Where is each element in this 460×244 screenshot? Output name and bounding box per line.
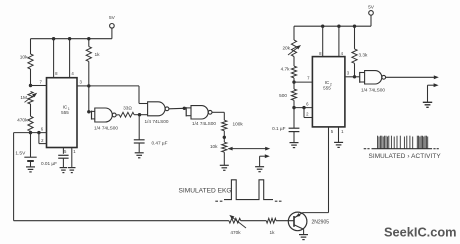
resistor R4 1k — [86, 39, 100, 86]
battery B1 1.5V — [15, 133, 36, 167]
svg-text:10k: 10k — [210, 144, 218, 149]
pin 7 label — [40, 79, 43, 84]
ground below C2 — [135, 153, 144, 158]
wire IC1 pin5 stub — [62, 148, 64, 154]
svg-text:7: 7 — [307, 76, 310, 81]
svg-text:1k: 1k — [95, 52, 101, 58]
simulated activity burst waveform — [364, 136, 439, 149]
pin 8 label — [55, 71, 58, 76]
capacitor C1 0.01 uF — [41, 155, 69, 167]
svg-text:100k: 100k — [233, 122, 244, 127]
SeekIC.com watermark — [384, 225, 457, 240]
ground at IC2 pin1 — [334, 142, 343, 147]
svg-text:0.1 µF: 0.1 µF — [272, 126, 286, 131]
svg-text:1M: 1M — [20, 95, 27, 101]
svg-text:2: 2 — [306, 112, 309, 117]
NAND gate U1D 1/4 74LS00 — [360, 71, 386, 84]
junction node R5/C2/gate2 — [138, 113, 141, 116]
junction node pin2 branch — [37, 131, 40, 134]
gate U1B label — [145, 119, 169, 124]
svg-text:4: 4 — [341, 51, 344, 56]
ground at IC1 pin1 — [68, 168, 76, 173]
IC1 555 timer — [47, 78, 78, 148]
pin 2 label IC2 — [306, 112, 309, 117]
svg-text:10k: 10k — [20, 55, 28, 61]
svg-text:6: 6 — [306, 102, 309, 107]
junction node gate1 input — [87, 110, 90, 113]
wire IC1 pin1 stub — [71, 148, 73, 168]
wire to IC2 pin6 — [294, 107, 312, 109]
ground below C1 — [60, 168, 68, 173]
capacitor C2 0.47 uF — [134, 115, 168, 153]
svg-text:SIMULATED EKG: SIMULATED EKG — [179, 187, 232, 194]
junction node IC1 pins2-6/battery — [29, 131, 32, 134]
wire left vertical (pins 2-6 net to bottom) — [13, 133, 15, 221]
svg-text:5V: 5V — [109, 15, 116, 21]
resistor R13 4.7k — [281, 66, 297, 82]
label SIMULATED ACTIVITY — [369, 153, 442, 160]
junction node R14/C3 — [292, 106, 295, 109]
capacitor C3 0.1 uF — [272, 108, 299, 143]
svg-text:5: 5 — [331, 129, 334, 134]
wire gate3 out — [212, 112, 224, 120]
svg-text:1.5V: 1.5V — [15, 151, 26, 157]
svg-text:33Ω: 33Ω — [123, 105, 132, 110]
wire IC2 pin1 stub — [338, 127, 340, 142]
power rail (right, 5V bus) — [294, 25, 371, 27]
svg-text:3: 3 — [347, 71, 350, 76]
wire gate2 out to gate3 — [169, 107, 184, 110]
output arrow (squarewave out) — [386, 75, 439, 79]
svg-text:555: 555 — [323, 85, 331, 90]
5V supply terminal (right) — [368, 5, 375, 27]
junction rail-pin4 — [68, 37, 71, 40]
wire pin3 to gate2 top input — [89, 86, 148, 104]
wire IC2 pin3 stub — [345, 76, 355, 78]
output return arrow — [428, 83, 439, 102]
resistor R6 100k — [222, 120, 244, 137]
junction node pin7 IC2 — [292, 80, 295, 83]
pin 5 label IC2 — [331, 129, 334, 134]
pin 4 label — [71, 71, 74, 76]
pin 8 label IC2 — [319, 51, 322, 56]
svg-text:3: 3 — [80, 79, 83, 84]
resistor R14 500 — [279, 82, 296, 108]
label SIMULATED EKG — [179, 187, 232, 194]
svg-text:1/4 74LS00: 1/4 74LS00 — [361, 87, 385, 92]
svg-text:8: 8 — [319, 51, 322, 56]
ground at output return — [423, 102, 432, 107]
wire junction to pin6 — [14, 132, 47, 134]
junction node gate3 input — [183, 107, 186, 110]
pin 7 label IC2 — [307, 76, 310, 81]
wire IC2 pin2 step — [304, 108, 312, 118]
svg-text:0.47 µF: 0.47 µF — [152, 140, 168, 145]
svg-text:1/4 74LS00: 1/4 74LS00 — [192, 121, 216, 126]
junction node pin3/R15 — [353, 75, 356, 78]
wire emitter to IC2 pin5 — [303, 127, 329, 213]
wire to transistor base — [276, 220, 294, 222]
svg-text:555: 555 — [61, 110, 69, 115]
NAND gate U1A 1/4 74LS00 — [89, 108, 116, 122]
svg-text:SeekIC.com: SeekIC.com — [384, 225, 457, 240]
wire pin4 stub — [69, 39, 71, 78]
pin 1 label IC2 — [341, 129, 344, 134]
5V supply terminal (left) — [109, 15, 116, 39]
svg-text:1/4 74LS00: 1/4 74LS00 — [94, 126, 118, 131]
pin 3 label — [80, 79, 83, 84]
NAND gate U1C 1/4 74LS00 — [184, 106, 212, 119]
svg-text:0.01 µF: 0.01 µF — [41, 161, 57, 166]
potentiometer R10 470k — [229, 215, 246, 235]
resistor R11 1k — [241, 218, 276, 235]
svg-text:SIMULATED › ACTIVITY: SIMULATED › ACTIVITY — [369, 153, 442, 160]
svg-text:1: 1 — [341, 129, 344, 134]
ground at EKG return — [255, 167, 264, 172]
svg-text:470k: 470k — [17, 118, 28, 124]
svg-text:6: 6 — [41, 127, 44, 132]
IC2 555 timer — [312, 57, 345, 127]
svg-text:7: 7 — [40, 79, 43, 84]
NAND gate U1B 1/4 74LS00 — [148, 102, 169, 116]
junction rail2-pin4 — [337, 25, 340, 28]
junction rail2-3.3k — [353, 25, 356, 28]
power rail (left, 5V bus) — [31, 38, 112, 40]
ground below battery — [26, 167, 35, 172]
ground below R7 — [220, 165, 229, 170]
wire IC2 pin4 stub — [338, 26, 340, 56]
resistor R5 33&#937; — [116, 105, 139, 117]
simulated EKG waveform — [215, 180, 281, 201]
wire pin8 stub — [53, 39, 55, 78]
wire junction to gate2 bottom input — [140, 114, 148, 116]
ground below Q1 — [299, 235, 308, 240]
pin 3 label IC2 — [347, 71, 350, 76]
resistor R1 10k — [20, 39, 33, 86]
gate U1D label — [361, 87, 385, 92]
svg-text:5V: 5V — [368, 5, 375, 11]
potentiometer R7 10k — [210, 137, 227, 165]
gate U1C label — [192, 121, 216, 126]
svg-text:20k: 20k — [282, 46, 290, 51]
junction rail2-pin8 — [321, 25, 324, 28]
wire bottom run — [14, 220, 229, 222]
svg-text:500: 500 — [279, 93, 287, 98]
potentiometer R2 1M — [20, 92, 37, 105]
svg-text:2N2905: 2N2905 — [312, 220, 330, 226]
junction node pin3/R4 — [87, 84, 90, 87]
wiper arrow of R7 — [228, 147, 271, 151]
EKG return arrow — [260, 154, 270, 166]
wire pin7 stub — [31, 85, 47, 87]
ground below C3 — [290, 143, 299, 148]
svg-text:1: 1 — [73, 149, 76, 154]
svg-text:4.7k: 4.7k — [281, 67, 291, 72]
wire IC2 pin8 stub — [322, 26, 324, 56]
junction node R6/R7 — [223, 136, 226, 139]
transistor Q1 2N2905 — [288, 212, 329, 231]
pin 4 label IC2 — [341, 51, 344, 56]
svg-text:1k: 1k — [270, 230, 276, 235]
wire IC2 pin7 stub — [294, 81, 312, 83]
wire pin2 step — [39, 133, 47, 144]
pin 5 label IC1 — [64, 149, 67, 154]
svg-text:3.3k: 3.3k — [359, 53, 369, 58]
svg-text:470k: 470k — [230, 230, 241, 235]
wire pin3 down to gate1 — [88, 86, 90, 112]
resistor R15 3.3k — [352, 26, 368, 77]
junction rail-pin8 — [52, 37, 55, 40]
svg-text:2: 2 — [41, 138, 44, 143]
svg-text:8: 8 — [55, 71, 58, 76]
wire to gate4 — [355, 76, 360, 78]
pin 2 label — [41, 138, 44, 143]
pin 1 label IC1 — [73, 149, 76, 154]
gate U1A label — [94, 126, 118, 131]
wire pin3 stub — [77, 85, 89, 87]
pin 6 label IC2 — [306, 102, 309, 107]
potentiometer R12 20k — [282, 26, 301, 66]
junction rail-1k — [87, 37, 90, 40]
junction node pin2 branch IC2 — [302, 106, 305, 109]
junction node pin7/R1 — [29, 84, 32, 87]
svg-text:5: 5 — [64, 149, 67, 154]
svg-text:1/4 74LS00: 1/4 74LS00 — [145, 119, 169, 124]
wire collector to ground — [303, 229, 305, 234]
svg-text:4: 4 — [71, 71, 74, 76]
pin 6 label — [41, 127, 44, 132]
resistor R3 470k — [17, 104, 33, 133]
